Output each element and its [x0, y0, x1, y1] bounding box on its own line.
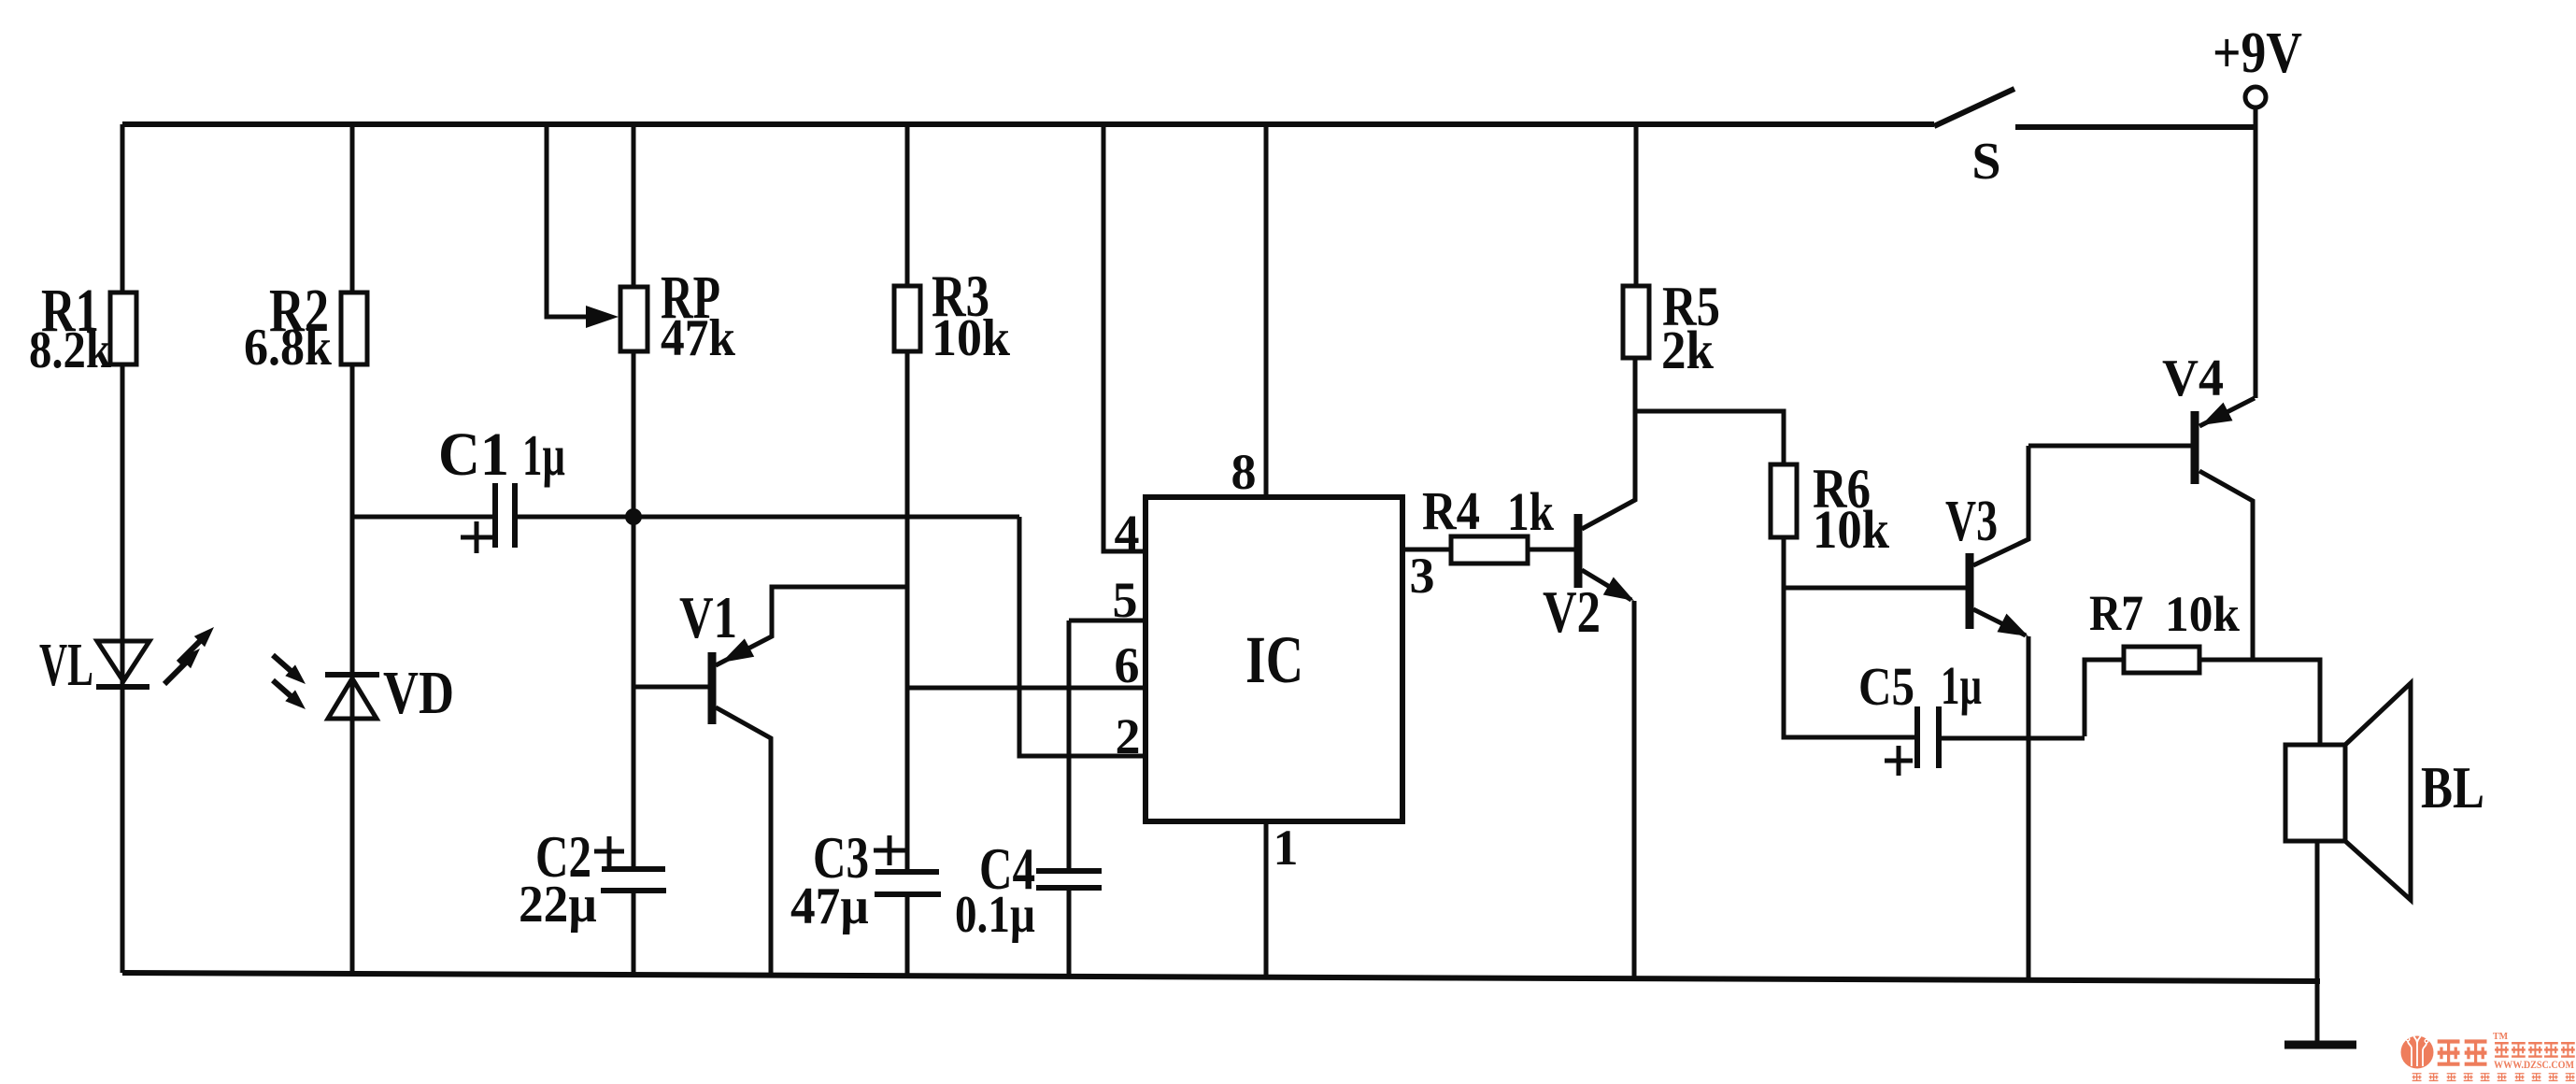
capacitor C3 [875, 872, 941, 976]
resistor R4 [1451, 536, 1528, 563]
svg-text:C1: C1 [438, 421, 509, 489]
wire V3 collector to V4 base [2028, 444, 2191, 449]
wire C5 to R7 [2085, 660, 2124, 736]
svg-text:1k: 1k [1507, 481, 1555, 542]
svg-text:1: 1 [1274, 820, 1299, 876]
svg-text:10k: 10k [1813, 499, 1890, 560]
op-amp IC block [1146, 497, 1402, 821]
wire pin3 to R4 [1402, 548, 1451, 552]
svg-text:6: 6 [1115, 637, 1140, 693]
svg-text:V4: V4 [2162, 349, 2224, 407]
svg-text:1µ: 1µ [1941, 655, 1982, 716]
transistor V1 [633, 587, 907, 975]
resistor R5 [1623, 127, 1649, 358]
svg-text:3: 3 [1410, 548, 1435, 604]
wire speaker to ground [2315, 841, 2320, 1045]
transistor V2 [1578, 358, 1640, 980]
resistor R6 [1771, 464, 1797, 537]
svg-text:VD: VD [383, 659, 454, 727]
svg-text:BL: BL [2421, 754, 2484, 820]
capacitor C2 [601, 869, 666, 891]
watermark slogan [2412, 1074, 2575, 1081]
capacitor C5 [1917, 706, 2085, 768]
VL light arrow 1 [164, 643, 206, 684]
svg-text:+9V: +9V [2213, 21, 2302, 85]
svg-text:WWW.DZSC.COM: WWW.DZSC.COM [2494, 1058, 2574, 1071]
wire R6 bottom to C5 [1784, 537, 1917, 737]
resistor R1 [110, 292, 136, 364]
wire C1 to pin2 net [1019, 517, 1146, 756]
svg-text:0.1µ: 0.1µ [955, 886, 1035, 944]
svg-text:R4: R4 [1422, 480, 1480, 541]
C1 plus sign [461, 521, 492, 553]
svg-text:5: 5 [1113, 572, 1138, 628]
svg-text:2k: 2k [1661, 320, 1715, 380]
wire pin1 net [1264, 821, 1269, 976]
resistor R7 [2124, 647, 2199, 673]
wire left rail (R1 branch) [121, 124, 125, 973]
C3 plus sign [874, 835, 905, 865]
wire R2 branch [350, 124, 355, 974]
wire R6 to V3 base [1784, 586, 1967, 591]
wire +9V to V4 emitter [2254, 108, 2258, 398]
svg-text:47k: 47k [661, 309, 736, 367]
node junction dot at C1 output [625, 508, 642, 525]
wire bottom ground rail [122, 973, 2320, 981]
wire R7 to speaker [2199, 660, 2320, 745]
svg-text:1µ: 1µ [522, 424, 565, 488]
wire top supply rail [122, 121, 1934, 127]
C5 plus sign [1885, 746, 1913, 776]
svg-text:8: 8 [1231, 444, 1257, 500]
svg-text:8.2k: 8.2k [29, 321, 112, 379]
svg-text:22µ: 22µ [519, 876, 597, 934]
svg-text:47µ: 47µ [790, 877, 869, 935]
potentiometer RP [620, 124, 648, 974]
svg-text:IC: IC [1245, 622, 1303, 697]
wire pin5 to C4 [1069, 620, 1146, 871]
wire RP wiper feed [547, 124, 589, 317]
C2 plus sign [594, 836, 624, 866]
wire pin4 net [1103, 124, 1146, 551]
photodiode VD [325, 675, 379, 719]
svg-text:2: 2 [1116, 708, 1141, 764]
VD light arrow 1 [273, 655, 310, 690]
ground [2284, 1041, 2356, 1049]
VL light arrow 2 [178, 621, 220, 663]
svg-text:R7: R7 [2089, 585, 2143, 641]
svg-text:V3: V3 [1945, 490, 1998, 553]
svg-text:V2: V2 [1543, 578, 1601, 645]
resistor R2 [341, 292, 367, 364]
wire top rail right segment [2015, 124, 2256, 130]
speaker BL [2285, 683, 2411, 900]
+9V terminal [2245, 87, 2266, 107]
svg-text:S: S [1971, 133, 2000, 191]
watermark text shop [2495, 1043, 2575, 1056]
svg-text:10k: 10k [2165, 586, 2240, 642]
wire R4 to V2 base [1528, 548, 1574, 552]
svg-text:10k: 10k [932, 309, 1011, 367]
svg-text:C5: C5 [1858, 656, 1914, 717]
LED VL [96, 641, 149, 687]
RP wiper arrow [586, 306, 619, 328]
svg-text:6.8k: 6.8k [244, 319, 333, 377]
wire pin6 net [907, 686, 1146, 691]
svg-text:VL: VL [39, 631, 93, 699]
capacitor C1 [352, 483, 1019, 548]
watermark text weiku [2438, 1042, 2487, 1064]
transistor V3 [1970, 446, 2033, 981]
capacitor C4 [1036, 871, 1102, 976]
resistor R3 [894, 124, 920, 872]
VD light arrow 2 [273, 680, 310, 715]
svg-text:V1: V1 [679, 584, 737, 650]
svg-text:4: 4 [1115, 505, 1140, 561]
transistor V4 [2195, 398, 2255, 660]
switch S lever [1934, 89, 2014, 126]
wire pin8 net [1264, 124, 1269, 497]
wire V2 collector to R6 [1636, 411, 1784, 464]
svg-text:TM: TM [2493, 1032, 2509, 1042]
watermark logo circle [2401, 1031, 2434, 1068]
